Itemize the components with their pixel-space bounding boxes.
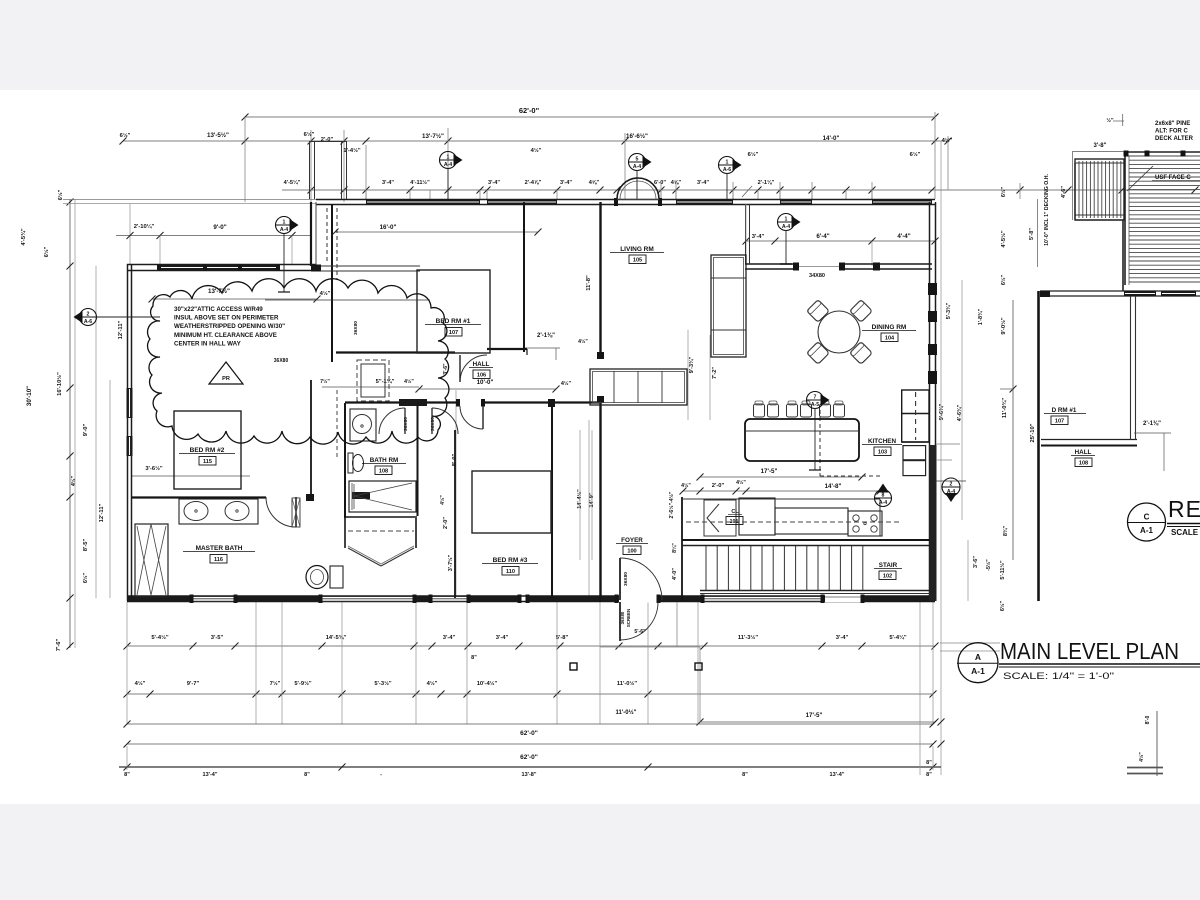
svg-text:CL: CL bbox=[731, 509, 739, 515]
svg-text:REA: REA bbox=[1168, 496, 1200, 522]
dim line second row top bbox=[123, 140, 948, 142]
svg-text:1'-4½": 1'-4½" bbox=[343, 147, 361, 154]
wall below left-wing window wall toward bed1 bbox=[311, 265, 420, 267]
svg-text:10'-0" INCL 1" DECKING O.H.: 10'-0" INCL 1" DECKING O.H. bbox=[1044, 174, 1050, 246]
master bath vanity bbox=[179, 499, 258, 524]
svg-text:3'-4": 3'-4" bbox=[752, 234, 765, 240]
svg-text:105: 105 bbox=[633, 258, 642, 264]
svg-text:3'-4": 3'-4" bbox=[697, 180, 709, 186]
refrigerator cabinets right bbox=[902, 390, 929, 442]
dim 16'-0 bed rm1 bbox=[335, 231, 538, 233]
svg-text:MINIMUM HT. CLEARANCE ABOVE: MINIMUM HT. CLEARANCE ABOVE bbox=[174, 332, 277, 339]
svg-text:2'-1⅛": 2'-1⅛" bbox=[758, 180, 775, 186]
svg-text:2'-4⅞": 2'-4⅞" bbox=[525, 180, 542, 186]
section symbol 8/A-4 near stove bbox=[875, 490, 892, 507]
svg-text:BED RM #1: BED RM #1 bbox=[436, 318, 471, 325]
bed rm1 west wall with dashed chimney bbox=[331, 204, 333, 362]
vertical extension lines from top wall to dim rows bbox=[244, 117, 246, 202]
svg-text:8": 8" bbox=[471, 655, 477, 661]
svg-text:103: 103 bbox=[878, 450, 887, 456]
section symbol 1/A-4 dining bbox=[778, 214, 795, 231]
dim 3'-6 1/2 bed rm2 bbox=[131, 475, 250, 477]
stair bottom lines bbox=[700, 590, 930, 592]
svg-text:62'-0": 62'-0" bbox=[519, 106, 540, 115]
right plan interior wall vertical bbox=[1130, 296, 1132, 440]
svg-text:4½": 4½" bbox=[942, 137, 953, 144]
svg-text:17'-5": 17'-5" bbox=[806, 712, 823, 719]
hall north wall bbox=[336, 351, 455, 353]
svg-text:2: 2 bbox=[87, 312, 90, 318]
svg-text:9'-3¾": 9'-3¾" bbox=[688, 356, 695, 373]
bottom exterior wall bbox=[127, 595, 935, 597]
svg-text:36X80: 36X80 bbox=[403, 417, 409, 431]
svg-text:13'-8": 13'-8" bbox=[522, 772, 537, 778]
svg-text:KITCHEN: KITCHEN bbox=[868, 438, 896, 445]
svg-text:11'-8": 11'-8" bbox=[586, 275, 592, 291]
svg-text:2'-0": 2'-0" bbox=[712, 483, 725, 489]
svg-text:4½": 4½" bbox=[531, 147, 542, 154]
stair risers bbox=[705, 546, 707, 590]
svg-text:25'-10": 25'-10" bbox=[1030, 423, 1036, 442]
svg-text:115: 115 bbox=[203, 459, 212, 465]
svg-text:A-4: A-4 bbox=[280, 227, 288, 233]
dim 13'-7 cloud row bbox=[152, 298, 317, 300]
svg-text:14'-4½": 14'-4½" bbox=[576, 489, 583, 509]
hall bath tub bbox=[349, 481, 416, 512]
svg-text:8": 8" bbox=[926, 772, 932, 778]
svg-text:3'-6": 3'-6" bbox=[973, 556, 979, 568]
svg-text:A-1: A-1 bbox=[971, 666, 985, 676]
kitchen counter back line bbox=[682, 498, 880, 500]
svg-text:4'-6": 4'-6" bbox=[1061, 186, 1067, 198]
kitchen dim row 2'-0 14'-8 bbox=[683, 490, 880, 492]
svg-text:6'-0": 6'-0" bbox=[654, 180, 666, 186]
svg-text:9'-7": 9'-7" bbox=[187, 681, 200, 687]
svg-text:5'-8": 5'-8" bbox=[1029, 228, 1035, 240]
svg-text:DINING RM: DINING RM bbox=[872, 324, 907, 331]
dining table round bbox=[818, 311, 860, 353]
dining chairs bbox=[807, 300, 830, 323]
gray letterbox band bottom bbox=[0, 804, 1200, 900]
section symbol 5/A-4 top bbox=[629, 154, 646, 171]
svg-text:5'-3¾": 5'-3¾" bbox=[945, 302, 952, 319]
section symbol 1/A-4 left wing bbox=[276, 217, 293, 234]
svg-text:A-1: A-1 bbox=[1140, 526, 1153, 535]
svg-text:62'-0": 62'-0" bbox=[520, 754, 538, 761]
gray letterbox band top bbox=[0, 0, 1200, 90]
svg-text:116: 116 bbox=[214, 557, 223, 563]
svg-text:14'-8": 14'-8" bbox=[825, 483, 842, 490]
window jamb extension lines from dim row bbox=[365, 190, 367, 199]
svg-text:BATH RM: BATH RM bbox=[370, 457, 399, 464]
hall bath sink bbox=[350, 409, 376, 441]
svg-text:3'-6½": 3'-6½" bbox=[145, 465, 163, 472]
svg-text:11'-0½": 11'-0½" bbox=[617, 680, 637, 687]
svg-text:4'-4": 4'-4" bbox=[897, 233, 910, 240]
patio post left bbox=[570, 663, 577, 670]
right plan wall below deck bbox=[1040, 290, 1200, 292]
bed rm3 door arc bbox=[460, 406, 483, 429]
sofa lower left L-shaped bbox=[590, 369, 687, 405]
svg-text:3'-4": 3'-4" bbox=[443, 635, 456, 641]
hall dim row 5'-1 bbox=[322, 386, 419, 388]
svg-text:12'-11": 12'-11" bbox=[99, 503, 105, 522]
foyer entry door bbox=[619, 558, 621, 600]
svg-text:A-6: A-6 bbox=[723, 167, 731, 173]
deck posts top edge bbox=[1124, 151, 1129, 157]
svg-text:A-4: A-4 bbox=[879, 500, 887, 506]
svg-text:3'-4": 3'-4" bbox=[488, 180, 500, 186]
patio post right bbox=[695, 663, 702, 670]
step wall connecting top walls bbox=[310, 202, 312, 266]
right plan interior wall horizontal bbox=[1041, 439, 1137, 441]
section symbol 1/A-6 top right bbox=[719, 157, 736, 174]
revision cloud around attic note bbox=[148, 279, 449, 444]
svg-text:1: 1 bbox=[785, 217, 788, 223]
svg-text:4⅝": 4⅝" bbox=[589, 180, 600, 186]
kitchen dim 17'-5 bbox=[700, 476, 862, 478]
section symbol 2/A-6 far left bbox=[80, 309, 97, 326]
svg-text:6½": 6½" bbox=[120, 132, 131, 139]
svg-text:5'-6": 5'-6" bbox=[634, 629, 646, 635]
svg-text:11'-0¾": 11'-0¾" bbox=[1001, 398, 1008, 418]
stair top wall double line bbox=[682, 539, 930, 541]
bed rm1 bed bbox=[417, 270, 490, 353]
top exterior wall bbox=[316, 199, 935, 201]
svg-text:½": ½" bbox=[1106, 117, 1114, 124]
svg-text:5'-8": 5'-8" bbox=[556, 635, 569, 641]
svg-text:2'-0": 2'-0" bbox=[321, 137, 334, 143]
bath east wall bbox=[417, 403, 419, 516]
svg-text:36X80: 36X80 bbox=[623, 572, 629, 586]
hall-bath double doors with labels bbox=[379, 408, 405, 434]
svg-text:8'-0: 8'-0 bbox=[1145, 716, 1151, 725]
svg-text:6½": 6½" bbox=[82, 572, 89, 583]
svg-text:4½": 4½" bbox=[135, 680, 146, 687]
left margin dim vertical lines bbox=[69, 199, 71, 648]
svg-text:36X80: 36X80 bbox=[353, 321, 359, 335]
svg-text:12'-11": 12'-11" bbox=[118, 320, 124, 339]
foyer screen door bbox=[619, 602, 621, 641]
svg-text:ALT: FOR C: ALT: FOR C bbox=[1155, 129, 1189, 135]
svg-text:3'-4": 3'-4" bbox=[560, 180, 572, 186]
right exterior wall bbox=[929, 202, 931, 601]
svg-text:4'-5½": 4'-5½" bbox=[1000, 230, 1007, 248]
svg-text:11'-3½": 11'-3½" bbox=[738, 634, 758, 641]
svg-text:4½": 4½" bbox=[404, 378, 414, 385]
svg-text:4½": 4½" bbox=[439, 495, 446, 505]
right side extension lines below plan bbox=[919, 601, 921, 775]
counter dashed line bbox=[686, 521, 900, 523]
right plan bottom-right detail bbox=[1156, 711, 1158, 776]
svg-text:16'-6½": 16'-6½" bbox=[626, 133, 648, 140]
svg-text:7'-6": 7'-6" bbox=[56, 639, 62, 652]
svg-text:110: 110 bbox=[506, 569, 515, 575]
svg-text:30'-10": 30'-10" bbox=[26, 386, 33, 406]
svg-text:36X80: 36X80 bbox=[430, 417, 436, 431]
svg-text:14'-0": 14'-0" bbox=[823, 135, 840, 142]
deck leader line bbox=[1127, 166, 1153, 191]
svg-text:PR: PR bbox=[222, 376, 230, 382]
svg-text:4½": 4½" bbox=[1138, 752, 1145, 762]
svg-text:4'-11½": 4'-11½" bbox=[410, 179, 430, 186]
range / stove bbox=[848, 511, 882, 536]
closet bed3 stubs and bifold bbox=[344, 518, 346, 548]
svg-text:SCALE: 1/4" = 1'-0": SCALE: 1/4" = 1'-0" bbox=[1003, 671, 1114, 681]
svg-text:6'-4": 6'-4" bbox=[816, 233, 829, 240]
svg-text:7½": 7½" bbox=[270, 680, 281, 687]
svg-text:2x6x8" PINE: 2x6x8" PINE bbox=[1155, 121, 1190, 127]
svg-text:16'-10½": 16'-10½" bbox=[56, 372, 63, 396]
svg-text:6½": 6½" bbox=[1000, 274, 1007, 285]
svg-text:7½": 7½" bbox=[320, 378, 330, 385]
svg-text:8: 8 bbox=[882, 493, 885, 499]
svg-text:A-4: A-4 bbox=[633, 164, 641, 170]
svg-text:6½": 6½" bbox=[910, 151, 921, 158]
svg-text:1: 1 bbox=[447, 155, 450, 161]
bath south wall / closet top bbox=[345, 516, 417, 518]
deck stairs bbox=[1075, 159, 1124, 220]
dining west wall bbox=[745, 204, 747, 264]
svg-text:107: 107 bbox=[1055, 419, 1064, 425]
svg-text:6½": 6½" bbox=[304, 131, 315, 138]
svg-text:BED RM #3: BED RM #3 bbox=[493, 557, 528, 564]
bed rm3 east wall bbox=[551, 403, 553, 598]
svg-text:9'-0½": 9'-0½" bbox=[1000, 317, 1007, 335]
bed rm3 bed bbox=[472, 471, 551, 533]
svg-text:CENTER IN HALL WAY: CENTER IN HALL WAY bbox=[174, 340, 242, 347]
svg-text:4⅝": 4⅝" bbox=[671, 180, 682, 186]
title REA circle C/A-1 bbox=[1128, 503, 1166, 541]
svg-text:STAIR: STAIR bbox=[879, 562, 898, 569]
attic access dashed hatch bbox=[361, 364, 385, 397]
svg-text:BED RM #2: BED RM #2 bbox=[190, 447, 225, 454]
section symbol 1/A-4 top bbox=[440, 152, 457, 169]
foyer east wall bbox=[681, 497, 683, 601]
svg-text:4½": 4½" bbox=[70, 475, 77, 486]
bath west wall bbox=[344, 403, 346, 518]
svg-text:A: A bbox=[975, 652, 981, 662]
svg-text:62'-0": 62'-0" bbox=[520, 730, 538, 737]
bed rm3 west wall bbox=[454, 430, 456, 598]
dim line window row top bbox=[282, 189, 1195, 191]
svg-text:2'-10¼": 2'-10¼" bbox=[134, 223, 155, 230]
svg-text:5: 5 bbox=[636, 157, 639, 163]
master suite north wall bbox=[131, 496, 266, 498]
svg-text:9'-0": 9'-0" bbox=[83, 424, 89, 437]
svg-text:8": 8" bbox=[124, 772, 130, 778]
svg-text:LIVING RM: LIVING RM bbox=[620, 246, 654, 253]
svg-text:7: 7 bbox=[814, 395, 817, 401]
svg-text:4½": 4½" bbox=[681, 482, 691, 489]
svg-text:1: 1 bbox=[283, 220, 286, 226]
svg-text:4'-0": 4'-0" bbox=[672, 568, 678, 580]
svg-text:A-4: A-4 bbox=[444, 162, 452, 168]
dim 2'-1 3/8 right of bed1 bbox=[525, 347, 560, 349]
svg-text:A-6: A-6 bbox=[84, 319, 92, 325]
svg-text:2'-1⅜": 2'-1⅜" bbox=[1143, 421, 1161, 427]
master bath shower bbox=[135, 524, 168, 597]
front door opening with arch bbox=[614, 198, 618, 206]
bed rm2 closet wall bbox=[310, 380, 312, 497]
svg-text:9'-6¾": 9'-6¾" bbox=[938, 403, 945, 420]
svg-text:WEATHERSTRIPPED OPENING W/30": WEATHERSTRIPPED OPENING W/30" bbox=[174, 323, 285, 330]
svg-text:4½": 4½" bbox=[736, 479, 746, 486]
svg-text:USF FACE C: USF FACE C bbox=[1155, 175, 1191, 181]
svg-text:2'-0": 2'-0" bbox=[443, 517, 449, 529]
svg-text:3'-5": 3'-5" bbox=[211, 635, 224, 641]
svg-text:4'-5¾": 4'-5¾" bbox=[20, 228, 27, 246]
left exterior wall bbox=[127, 264, 129, 601]
bottom dim row 2 bbox=[127, 693, 933, 695]
svg-text:107: 107 bbox=[449, 330, 458, 336]
svg-text:-: - bbox=[380, 772, 382, 778]
svg-text:-5½": -5½" bbox=[985, 559, 992, 571]
svg-text:HALL: HALL bbox=[1075, 449, 1092, 456]
bed rm1 door arc in hall bbox=[460, 355, 487, 382]
svg-text:13'-4": 13'-4" bbox=[830, 772, 845, 778]
bed rm1 east wall bbox=[523, 202, 525, 352]
svg-text:4½": 4½" bbox=[320, 290, 331, 297]
svg-text:11'-0½": 11'-0½" bbox=[616, 709, 637, 716]
svg-text:13'-4": 13'-4" bbox=[203, 772, 218, 778]
svg-text:10'-0": 10'-0" bbox=[477, 379, 494, 386]
svg-text:108: 108 bbox=[1079, 461, 1088, 467]
svg-text:4½": 4½" bbox=[427, 680, 438, 687]
svg-text:6½": 6½" bbox=[57, 189, 64, 200]
svg-text:104: 104 bbox=[885, 336, 895, 342]
svg-text:DECK ALTER: DECK ALTER bbox=[1155, 136, 1194, 142]
master bath door arc bbox=[295, 497, 297, 527]
svg-text:8": 8" bbox=[304, 772, 310, 778]
svg-text:8¾": 8¾" bbox=[1002, 525, 1009, 536]
svg-text:D RM #1: D RM #1 bbox=[1052, 407, 1077, 414]
left wing dim row 9'-0 bbox=[116, 235, 311, 237]
svg-text:17'-5": 17'-5" bbox=[761, 468, 778, 475]
svg-text:13'-5½": 13'-5½" bbox=[207, 132, 229, 139]
closet CL 101 bbox=[704, 500, 736, 536]
svg-text:SCREEN: SCREEN bbox=[626, 609, 631, 627]
svg-text:SCALE: SCALE bbox=[1171, 528, 1199, 537]
patio outline bbox=[600, 646, 700, 648]
kitchen wall segment right bbox=[879, 499, 881, 536]
bottom dim 17'-5 patio bbox=[700, 721, 935, 723]
svg-text:5'-4½": 5'-4½" bbox=[151, 634, 169, 641]
svg-text:3'-4": 3'-4" bbox=[382, 180, 394, 186]
bottom extension verticals bbox=[126, 602, 128, 724]
sofa tall against dining wall bbox=[711, 255, 746, 357]
svg-text:8'-5": 8'-5" bbox=[83, 539, 89, 552]
svg-text:8": 8" bbox=[742, 772, 748, 778]
svg-text:36X80: 36X80 bbox=[274, 358, 289, 364]
svg-text:8¼": 8¼" bbox=[671, 543, 678, 553]
svg-text:5'-11½": 5'-11½" bbox=[999, 560, 1006, 580]
svg-text:5'-4¼": 5'-4¼" bbox=[889, 634, 907, 641]
dining dim row 3-4 6-4 4-4 bbox=[746, 240, 935, 242]
deck lower left edge bbox=[1074, 163, 1076, 220]
svg-text:MAIN LEVEL PLAN: MAIN LEVEL PLAN bbox=[1000, 638, 1179, 664]
svg-text:4½": 4½" bbox=[561, 380, 572, 387]
right plan west wall bbox=[1037, 291, 1040, 601]
svg-text:A-4: A-4 bbox=[782, 224, 790, 230]
svg-text:2'-1⅜": 2'-1⅜" bbox=[537, 333, 555, 339]
svg-text:4'-5¼": 4'-5¼" bbox=[284, 179, 301, 186]
svg-text:102: 102 bbox=[883, 574, 892, 580]
bed rm2 bed bbox=[174, 411, 241, 489]
svg-text:10'-4½": 10'-4½" bbox=[477, 680, 498, 687]
hall south wall bbox=[345, 401, 600, 403]
svg-text:108: 108 bbox=[379, 469, 388, 475]
deck planks bbox=[1124, 156, 1126, 285]
svg-text:4½": 4½" bbox=[578, 338, 588, 345]
bottom dim row 1 bbox=[127, 645, 935, 647]
svg-text:FOYER: FOYER bbox=[621, 537, 643, 544]
svg-text:HALL: HALL bbox=[473, 361, 490, 368]
svg-text:2: 2 bbox=[950, 482, 953, 488]
master toilet bbox=[330, 566, 343, 588]
svg-text:2'-6½"-4½": 2'-6½"-4½" bbox=[668, 491, 675, 518]
svg-text:3'-4": 3'-4" bbox=[836, 635, 849, 641]
svg-text:3'-4": 3'-4" bbox=[496, 635, 509, 641]
svg-text:6½": 6½" bbox=[999, 600, 1006, 611]
svg-text:34X80: 34X80 bbox=[809, 273, 825, 279]
left wing top exterior wall bbox=[127, 264, 316, 266]
svg-text:A-5: A-5 bbox=[811, 402, 819, 408]
kitchen wall top dims bbox=[745, 204, 747, 241]
svg-text:30"x22"ATTIC ACCESS W/R49: 30"x22"ATTIC ACCESS W/R49 bbox=[174, 306, 263, 313]
section symbol 7/A-5 island bbox=[807, 392, 824, 409]
svg-text:5'-3½": 5'-3½" bbox=[374, 680, 392, 687]
island stools bbox=[754, 404, 765, 417]
svg-text:6½": 6½" bbox=[1000, 186, 1007, 197]
svg-text:6½": 6½" bbox=[748, 151, 759, 158]
svg-text:1: 1 bbox=[726, 160, 729, 166]
svg-text:INSUL ABOVE SET ON PERIMETER: INSUL ABOVE SET ON PERIMETER bbox=[174, 315, 279, 322]
svg-text:36X80: 36X80 bbox=[620, 611, 625, 624]
svg-text:9'-0": 9'-0" bbox=[213, 224, 226, 231]
PR triangle symbol bbox=[209, 362, 243, 384]
svg-text:3'-8": 3'-8" bbox=[1094, 143, 1107, 149]
svg-text:5'-9½": 5'-9½" bbox=[294, 680, 312, 687]
living/dining divider wall bbox=[745, 263, 798, 265]
hall dim 10'-0 bbox=[419, 388, 556, 390]
svg-text:1'-8¾": 1'-8¾" bbox=[977, 308, 984, 325]
dim line 62'-0 top bbox=[245, 116, 935, 118]
svg-text:C: C bbox=[1144, 513, 1150, 522]
svg-text:100: 100 bbox=[627, 549, 636, 555]
hall bath toilet bbox=[348, 453, 353, 473]
bottom dim row 3 bbox=[127, 723, 933, 725]
svg-text:3'-7½": 3'-7½" bbox=[447, 554, 454, 571]
section symbol 2/A-4 right bbox=[942, 478, 960, 496]
entry porch columns above top wall bbox=[309, 141, 311, 199]
kitchen counter cabinets bbox=[739, 498, 775, 535]
svg-text:14'-5¾": 14'-5¾" bbox=[326, 634, 347, 641]
svg-text:8": 8" bbox=[926, 760, 932, 766]
svg-text:106: 106 bbox=[477, 373, 486, 379]
svg-text:MASTER BATH: MASTER BATH bbox=[196, 545, 243, 552]
title main level plan circle A/A-1 bbox=[958, 643, 998, 683]
kitchen island bbox=[745, 419, 859, 461]
svg-text:6½": 6½" bbox=[43, 246, 50, 257]
svg-text:13'-7½": 13'-7½" bbox=[422, 133, 444, 140]
interior wall hall/living divider x600 bbox=[599, 202, 601, 358]
svg-text:16'-0": 16'-0" bbox=[380, 224, 397, 231]
svg-text:7'-2": 7'-2" bbox=[712, 367, 718, 379]
